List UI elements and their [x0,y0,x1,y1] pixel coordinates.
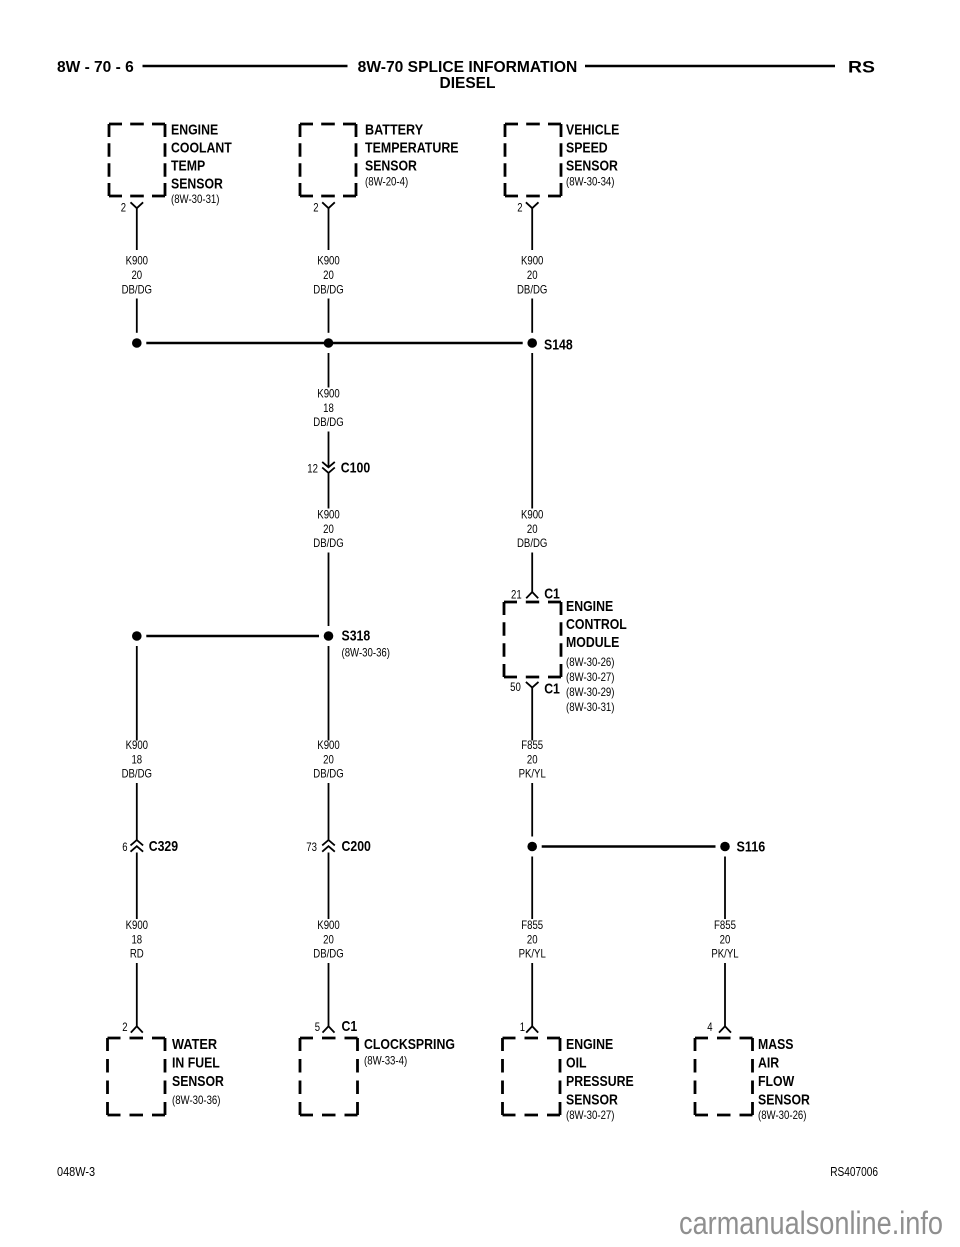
pin 2 connector [122,1020,143,1034]
wire [531,299,533,333]
connector C200 [306,838,371,855]
wire label F855 20 PK/YL [519,918,546,961]
wire [531,208,533,250]
svg-text:(8W-30-29): (8W-30-29) [566,685,615,699]
wire [136,299,138,333]
svg-text:OIL: OIL [566,1055,587,1072]
svg-text:4: 4 [707,1020,713,1034]
wire [531,857,533,920]
wire [531,963,533,1026]
wire [136,963,138,1026]
wire label K900 20 DB/DG [313,918,343,961]
wire [328,208,330,250]
svg-text:DB/DG: DB/DG [313,767,343,781]
pin 2 connector [313,201,335,215]
svg-text:VEHICLE: VEHICLE [566,122,619,139]
wire [328,783,330,840]
svg-text:TEMP: TEMP [171,158,205,175]
wire [136,783,138,840]
engine oil pressure sensor box [503,1038,561,1115]
svg-text:(8W-20-4): (8W-20-4) [365,175,408,189]
svg-text:C1: C1 [544,585,560,602]
wire [531,783,533,837]
svg-text:SENSOR: SENSOR [758,1092,810,1109]
svg-text:(8W-30-26): (8W-30-26) [566,655,615,669]
wire label F855 20 PK/YL [711,918,738,961]
svg-text:20: 20 [323,753,334,767]
svg-text:50: 50 [510,680,521,694]
svg-text:1: 1 [520,1020,526,1034]
svg-text:DB/DG: DB/DG [517,536,547,550]
svg-text:(8W-30-36): (8W-30-36) [342,646,391,660]
svg-text:COOLANT: COOLANT [171,140,232,157]
svg-text:20: 20 [323,268,334,282]
junction dot [527,842,537,852]
svg-text:C329: C329 [149,838,178,855]
svg-text:20: 20 [323,933,334,947]
svg-text:ENGINE: ENGINE [566,598,613,615]
svg-text:20: 20 [527,933,538,947]
svg-text:(8W-30-36): (8W-30-36) [172,1093,221,1107]
svg-text:S116: S116 [737,839,766,856]
pin 5 connector C1 [315,1018,358,1035]
pin 21 connector C1 [511,585,560,602]
svg-text:K900: K900 [317,387,340,401]
svg-text:20: 20 [323,522,334,536]
junction dot S318 [324,631,334,641]
svg-text:K900: K900 [317,918,340,932]
svg-text:18: 18 [323,401,334,415]
engine control module box [504,602,561,677]
svg-text:ENGINE: ENGINE [566,1036,613,1053]
wire [136,853,138,920]
svg-text:PRESSURE: PRESSURE [566,1073,634,1090]
wire label K900 18 DB/DG [313,387,343,430]
svg-text:FLOW: FLOW [758,1073,795,1090]
svg-text:CLOCKSPRING: CLOCKSPRING [364,1036,455,1053]
wire [136,208,138,250]
svg-text:RS: RS [848,58,875,77]
svg-text:8W-70 SPLICE INFORMATION: 8W-70 SPLICE INFORMATION [358,59,578,76]
wire [328,853,330,920]
svg-text:K900: K900 [317,738,340,752]
svg-text:CONTROL: CONTROL [566,616,627,633]
svg-text:K900: K900 [126,738,149,752]
svg-text:20: 20 [131,268,142,282]
svg-text:K900: K900 [521,254,544,268]
svg-text:DB/DG: DB/DG [122,282,152,296]
wire [136,646,138,741]
header rule left [143,65,348,67]
svg-text:(8W-30-27): (8W-30-27) [566,670,615,684]
svg-text:K900: K900 [126,254,149,268]
svg-text:DB/DG: DB/DG [313,415,343,429]
header rule right [585,65,835,67]
wire [328,646,330,741]
svg-text:RD: RD [130,947,144,961]
svg-text:K900: K900 [317,508,340,522]
wire label K900 20 DB/DG [517,254,547,297]
svg-text:IN FUEL: IN FUEL [172,1055,220,1072]
svg-text:20: 20 [720,933,731,947]
svg-text:20: 20 [527,268,538,282]
wire [328,432,330,468]
splice S116 bus [542,845,716,848]
svg-text:PK/YL: PK/YL [519,767,546,781]
svg-text:S148: S148 [544,337,573,354]
svg-text:6: 6 [122,840,128,854]
engine coolant temp sensor box [109,124,165,196]
splice S148 bus [146,342,522,345]
wire [531,553,533,593]
wire [328,553,330,627]
wire [531,688,533,741]
wire [328,963,330,1026]
junction dot S116 [720,842,730,852]
wire label K900 20 DB/DG [313,508,343,551]
svg-text:PK/YL: PK/YL [711,947,738,961]
svg-text:5: 5 [315,1020,321,1034]
svg-text:DB/DG: DB/DG [313,282,343,296]
svg-text:K900: K900 [317,254,340,268]
svg-text:TEMPERATURE: TEMPERATURE [365,140,459,157]
svg-text:RS407006: RS407006 [830,1165,878,1179]
svg-text:BATTERY: BATTERY [365,122,423,139]
label S318 [342,628,391,660]
svg-text:(8W-30-27): (8W-30-27) [566,1108,615,1122]
svg-text:20: 20 [527,522,538,536]
svg-text:F855: F855 [521,918,543,932]
wire label K900 20 DB/DG [313,738,343,781]
svg-text:(8W-33-4): (8W-33-4) [364,1054,407,1068]
water in fuel sensor box [108,1038,166,1115]
svg-text:ENGINE: ENGINE [171,122,218,139]
svg-text:048W-3: 048W-3 [57,1165,95,1179]
svg-text:SENSOR: SENSOR [172,1073,224,1090]
svg-text:C100: C100 [341,460,370,477]
wire label K900 18 RD [126,918,149,961]
wire [328,299,330,333]
svg-text:18: 18 [131,933,142,947]
svg-text:73: 73 [306,840,317,854]
svg-text:SENSOR: SENSOR [365,158,417,175]
junction dot [132,338,142,348]
vehicle speed sensor box [505,124,561,196]
wire label K900 20 DB/DG [313,254,343,297]
pin 2 connector [517,201,538,215]
svg-text:SENSOR: SENSOR [566,1092,618,1109]
wire [328,353,330,388]
svg-text:2: 2 [313,201,319,215]
svg-text:K900: K900 [521,508,544,522]
svg-text:PK/YL: PK/YL [519,947,546,961]
mass air flow sensor box [695,1038,753,1115]
wire [328,474,330,509]
junction dot S148 [527,338,537,348]
pin 4 connector [707,1020,731,1034]
svg-text:21: 21 [511,587,522,601]
svg-text:DB/DG: DB/DG [313,536,343,550]
svg-text:S318: S318 [342,628,371,645]
connector C329 [122,838,178,855]
junction dot [324,338,334,348]
svg-text:2: 2 [121,201,127,215]
wire [724,857,726,920]
svg-text:DB/DG: DB/DG [122,767,152,781]
svg-text:C1: C1 [342,1018,358,1035]
pin 1 connector [520,1020,539,1034]
svg-text:2: 2 [122,1020,128,1034]
svg-text:SENSOR: SENSOR [171,176,223,193]
svg-text:(8W-30-26): (8W-30-26) [758,1108,807,1122]
svg-text:20: 20 [527,753,538,767]
wire [531,353,533,509]
svg-text:2: 2 [517,201,523,215]
svg-text:F855: F855 [521,738,543,752]
battery temperature sensor box [300,124,356,196]
svg-text:DIESEL: DIESEL [440,75,496,92]
svg-text:K900: K900 [126,918,149,932]
svg-text:F855: F855 [714,918,736,932]
wire label F855 20 PK/YL [519,738,546,781]
clockspring box [300,1038,358,1115]
svg-text:(8W-30-34): (8W-30-34) [566,175,615,189]
svg-text:DB/DG: DB/DG [313,947,343,961]
wire label K900 20 DB/DG [517,508,547,551]
connector C100 [307,460,370,477]
wire label K900 20 DB/DG [122,254,152,297]
svg-text:MASS: MASS [758,1036,794,1053]
svg-text:WATER: WATER [172,1036,217,1053]
svg-text:(8W-30-31): (8W-30-31) [171,192,220,206]
svg-text:C200: C200 [342,838,371,855]
svg-text:12: 12 [307,462,318,476]
wire label K900 18 DB/DG [122,738,152,781]
svg-text:8W - 70 - 6: 8W - 70 - 6 [57,59,134,76]
svg-text:18: 18 [131,753,142,767]
svg-text:SENSOR: SENSOR [566,158,618,175]
pin 50 connector C1 [510,680,560,697]
splice S318 bus [146,635,319,638]
pin 2 connector [121,201,143,215]
svg-text:C1: C1 [544,680,560,697]
svg-text:AIR: AIR [758,1055,779,1072]
wire [724,963,726,1026]
svg-text:SPEED: SPEED [566,140,608,157]
svg-text:(8W-30-31): (8W-30-31) [566,700,615,714]
junction dot [132,631,142,641]
svg-text:DB/DG: DB/DG [517,282,547,296]
svg-text:carmanualsonline.info: carmanualsonline.info [679,1205,943,1241]
svg-text:MODULE: MODULE [566,634,619,651]
